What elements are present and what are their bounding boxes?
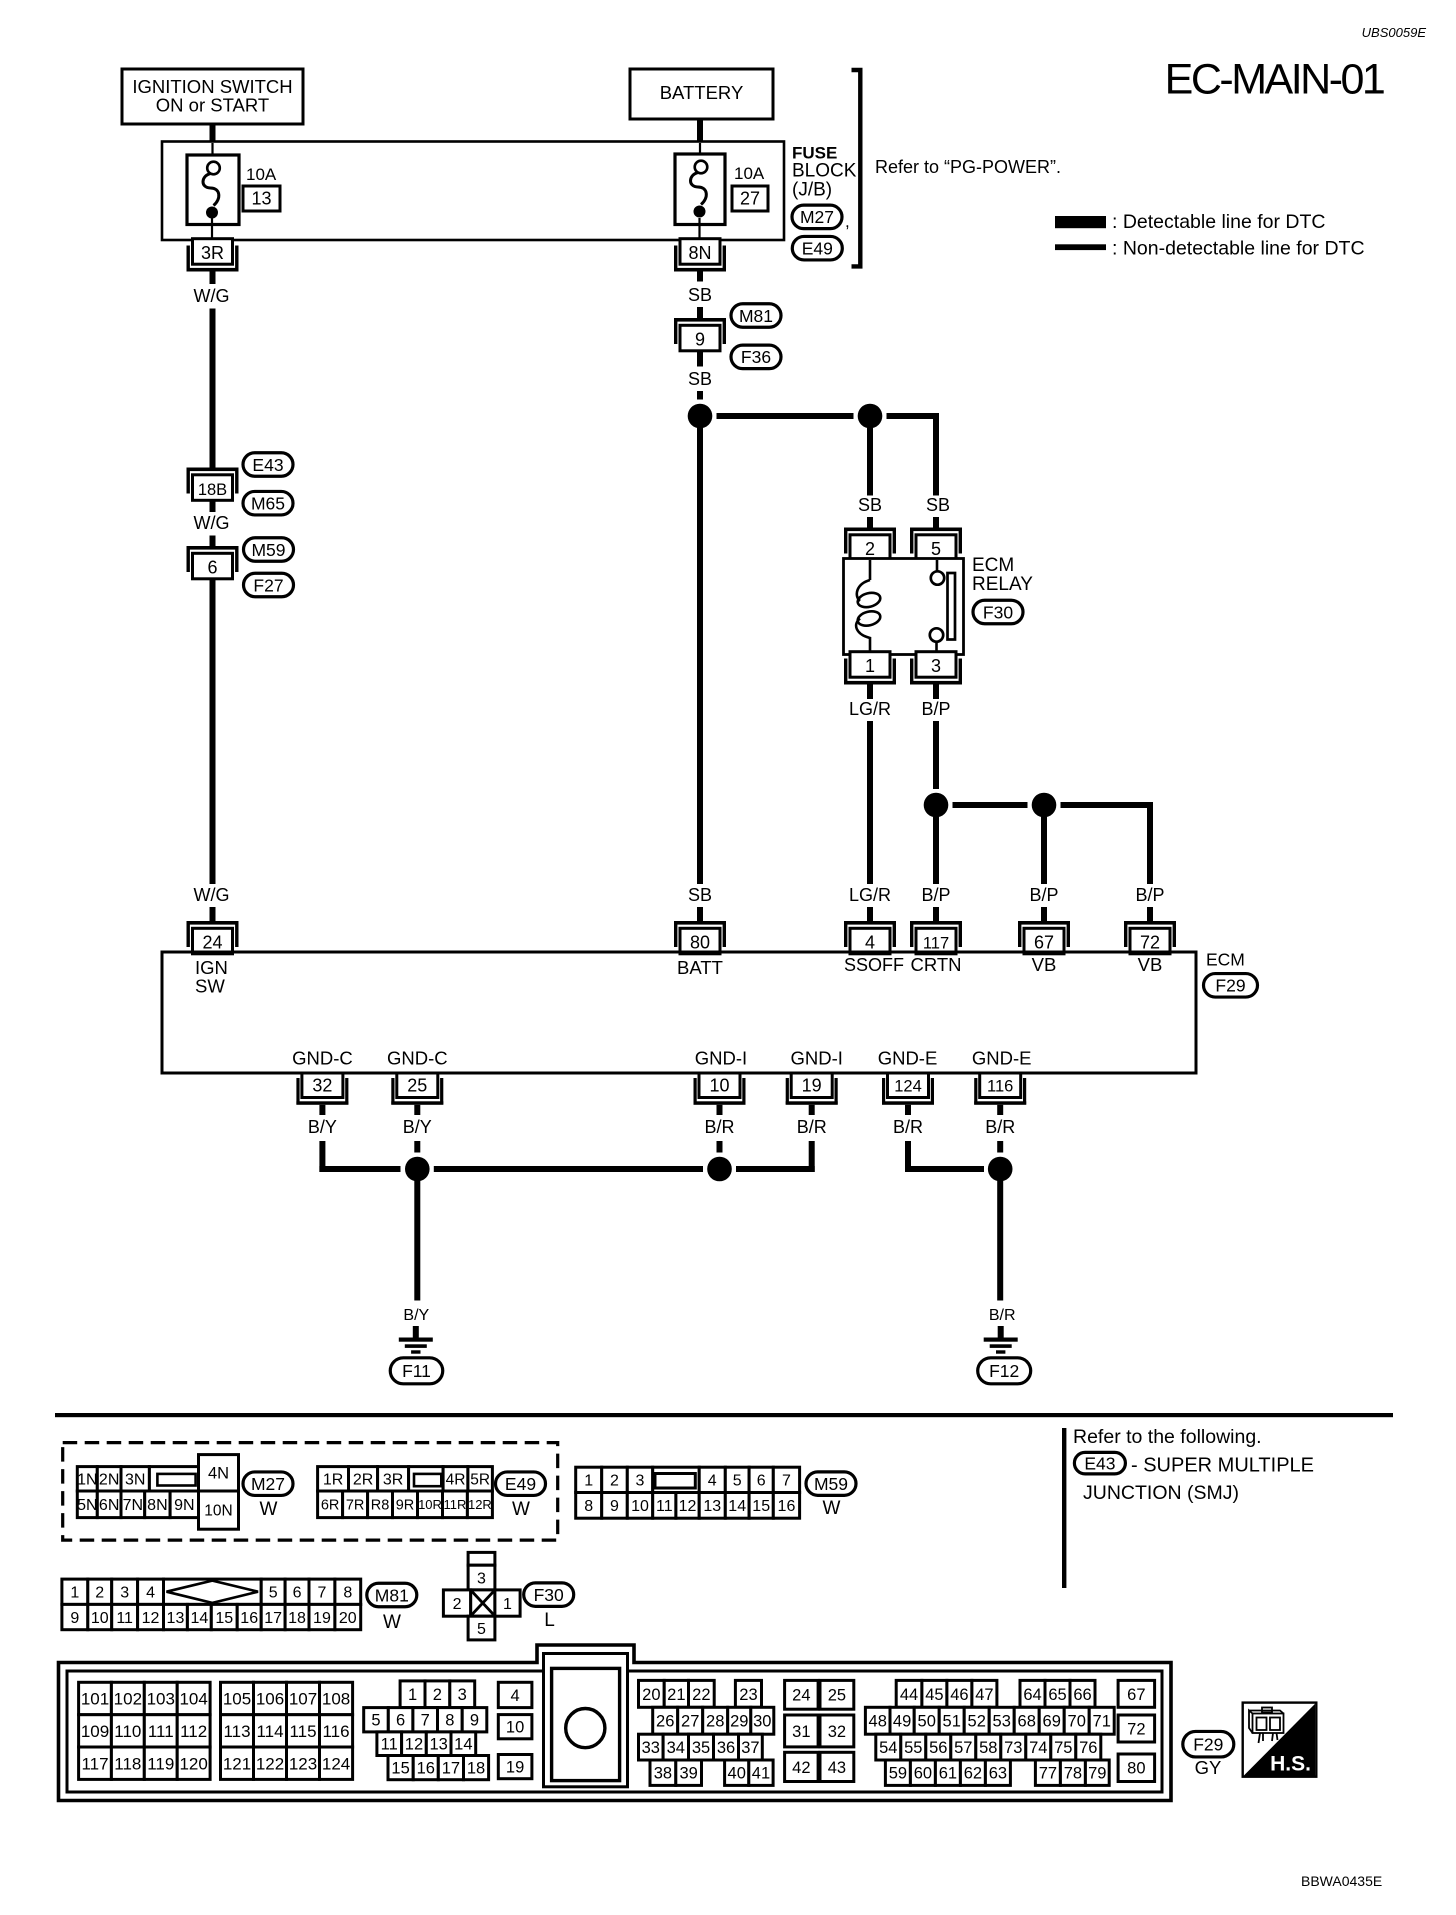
svg-text:78: 78 xyxy=(1064,1765,1082,1783)
svg-text:72: 72 xyxy=(1140,932,1160,952)
svg-text:72: 72 xyxy=(1127,1720,1145,1738)
svg-text:8N: 8N xyxy=(688,243,711,263)
svg-text:BATTERY: BATTERY xyxy=(660,82,744,103)
svg-text:6: 6 xyxy=(396,1712,405,1730)
svg-text:52: 52 xyxy=(968,1713,986,1731)
svg-text:51: 51 xyxy=(943,1713,961,1731)
svg-text:B/R: B/R xyxy=(893,1117,923,1137)
svg-text:114: 114 xyxy=(256,1722,283,1741)
svg-text:Refer to “PG-POWER”.: Refer to “PG-POWER”. xyxy=(875,157,1061,177)
svg-text:3R: 3R xyxy=(201,243,224,263)
svg-text:GND-I: GND-I xyxy=(695,1048,747,1069)
svg-text:1N: 1N xyxy=(77,1472,97,1489)
svg-text:71: 71 xyxy=(1093,1713,1111,1731)
block BATTERY xyxy=(630,69,773,119)
svg-text:3: 3 xyxy=(477,1570,486,1587)
svg-text:23: 23 xyxy=(739,1686,757,1704)
connector ref M81 oval xyxy=(731,304,781,328)
svg-text:46: 46 xyxy=(950,1686,968,1704)
svg-text:: Detectable line for DTC: : Detectable line for DTC xyxy=(1112,211,1326,233)
svg-text:50: 50 xyxy=(918,1713,936,1731)
svg-text:67: 67 xyxy=(1127,1686,1145,1704)
svg-text:105: 105 xyxy=(223,1690,251,1709)
svg-text:76: 76 xyxy=(1079,1739,1097,1757)
svg-text:4: 4 xyxy=(708,1473,717,1490)
ground symbol F12 xyxy=(984,1326,1018,1354)
ECM connector pin 4 xyxy=(498,1682,532,1707)
svg-text:4R: 4R xyxy=(446,1471,466,1488)
svg-text:F12: F12 xyxy=(989,1361,1019,1381)
svg-text:6: 6 xyxy=(293,1585,302,1602)
svg-text:ECM: ECM xyxy=(1206,950,1245,970)
svg-text:SB: SB xyxy=(688,285,712,305)
svg-text:LG/R: LG/R xyxy=(849,885,891,905)
svg-text:25: 25 xyxy=(828,1687,846,1705)
svg-text:101: 101 xyxy=(81,1690,109,1709)
ECM connector grid 105-124 xyxy=(221,1682,353,1779)
svg-text:8: 8 xyxy=(343,1585,352,1602)
svg-text:75: 75 xyxy=(1054,1739,1072,1757)
wire SB to relay terminal 2 xyxy=(867,428,873,496)
ECM connector outer border xyxy=(59,1645,1172,1801)
svg-text:10A: 10A xyxy=(734,164,765,183)
wire battery to fuse block xyxy=(697,119,703,142)
ECM terminal 80 xyxy=(674,921,726,954)
svg-text:102: 102 xyxy=(114,1690,142,1709)
svg-text:118: 118 xyxy=(114,1754,141,1773)
wire 8N down xyxy=(697,272,703,282)
svg-text:GY: GY xyxy=(1195,1757,1222,1778)
svg-text:JUNCTION (SMJ): JUNCTION (SMJ) xyxy=(1083,1482,1239,1504)
svg-text:M81: M81 xyxy=(739,306,773,326)
wire LG/R long run xyxy=(867,721,873,884)
svg-text:F30: F30 xyxy=(534,1585,564,1605)
svg-text:36: 36 xyxy=(717,1739,735,1757)
svg-text:UBS0059E: UBS0059E xyxy=(1362,25,1427,40)
svg-text:W/G: W/G xyxy=(194,286,230,306)
svg-text:68: 68 xyxy=(1018,1713,1036,1731)
ECM connector center block xyxy=(544,1654,628,1787)
svg-text:55: 55 xyxy=(904,1739,922,1757)
svg-text:15: 15 xyxy=(391,1760,409,1778)
svg-text:GND-C: GND-C xyxy=(387,1048,448,1069)
svg-text:4: 4 xyxy=(511,1687,520,1705)
svg-text:121: 121 xyxy=(223,1754,251,1773)
svg-text:B/R: B/R xyxy=(985,1117,1015,1137)
svg-text:1: 1 xyxy=(70,1585,79,1602)
fuse block label FUSE BLOCK (J/B) xyxy=(792,144,857,201)
svg-text:1R: 1R xyxy=(323,1472,343,1489)
svg-text:,: , xyxy=(845,212,850,231)
svg-text:F27: F27 xyxy=(253,575,283,595)
svg-text:11: 11 xyxy=(381,1736,398,1754)
ECM terminal 10 xyxy=(694,1073,746,1105)
svg-text:W: W xyxy=(383,1612,401,1633)
bracket right of fuse block xyxy=(852,70,861,266)
svg-text:1: 1 xyxy=(408,1686,417,1704)
svg-text:12R: 12R xyxy=(468,1497,492,1512)
wire 18B down xyxy=(210,500,216,512)
junction dot ground bus B/Y xyxy=(405,1157,430,1182)
svg-text:14: 14 xyxy=(190,1610,208,1627)
svg-text:62: 62 xyxy=(964,1765,982,1783)
svg-text:W: W xyxy=(260,1499,278,1520)
svg-text:1: 1 xyxy=(584,1473,593,1490)
svg-text:VB: VB xyxy=(1032,954,1057,975)
wire 9 down xyxy=(697,351,703,367)
svg-text:18: 18 xyxy=(288,1610,306,1627)
svg-text:39: 39 xyxy=(679,1765,697,1783)
ECM connector pins 44-47 64-66 xyxy=(896,1680,1095,1707)
svg-text:2: 2 xyxy=(453,1596,462,1613)
svg-text:21: 21 xyxy=(667,1686,685,1704)
svg-text:12: 12 xyxy=(142,1610,160,1627)
svg-text:7: 7 xyxy=(782,1473,791,1490)
relay terminal 1 xyxy=(844,652,896,685)
svg-text:109: 109 xyxy=(81,1722,109,1741)
svg-text:106: 106 xyxy=(256,1690,284,1709)
connector ref E43 oval note xyxy=(1074,1452,1125,1474)
svg-text:B/P: B/P xyxy=(1135,885,1164,905)
junction dot SB bus left xyxy=(688,404,713,429)
legend non-detectable line bar xyxy=(1055,244,1106,250)
svg-text:34: 34 xyxy=(667,1739,685,1757)
wire 19 down xyxy=(809,1105,815,1115)
svg-text:7: 7 xyxy=(317,1585,326,1602)
terminal 18B xyxy=(187,468,239,501)
ECM connector inner border xyxy=(67,1654,1162,1793)
svg-text:64: 64 xyxy=(1023,1686,1041,1704)
wire 124 down xyxy=(905,1105,911,1115)
svg-text:17: 17 xyxy=(264,1610,282,1627)
wire into fuse 27 xyxy=(699,143,701,162)
svg-text:BBWA0435E: BBWA0435E xyxy=(1301,1873,1382,1889)
wire SB to terminal 9 xyxy=(697,307,703,318)
svg-text:16: 16 xyxy=(417,1760,435,1778)
svg-text:61: 61 xyxy=(939,1765,957,1783)
svg-text:F29: F29 xyxy=(1215,976,1245,996)
svg-text:122: 122 xyxy=(256,1754,284,1773)
junction dot ground bus B/R xyxy=(707,1157,732,1182)
svg-text:2N: 2N xyxy=(99,1472,119,1489)
svg-text:5N: 5N xyxy=(77,1497,97,1514)
svg-text:E43: E43 xyxy=(252,455,283,475)
svg-text:F11: F11 xyxy=(402,1361,431,1381)
svg-text:43: 43 xyxy=(828,1759,846,1777)
ECM connector pins 20-23 xyxy=(639,1680,762,1707)
svg-text:7: 7 xyxy=(421,1712,430,1730)
svg-text:GND-E: GND-E xyxy=(878,1048,938,1069)
svg-text:59: 59 xyxy=(889,1765,907,1783)
svg-text:15: 15 xyxy=(752,1498,770,1515)
svg-text:1: 1 xyxy=(503,1596,512,1613)
svg-text:E43: E43 xyxy=(1084,1453,1115,1473)
connector view F30 relay socket xyxy=(443,1552,520,1639)
ground bus wire B/Y-B/R xyxy=(434,1166,703,1172)
svg-text:M27: M27 xyxy=(251,1474,285,1494)
ECM terminal 32 xyxy=(296,1073,348,1105)
svg-text:104: 104 xyxy=(179,1690,207,1709)
svg-text:2: 2 xyxy=(95,1585,104,1602)
dashed box SMJ connectors xyxy=(63,1443,558,1541)
fuse block J/B outline xyxy=(162,142,784,241)
connector ref E49 oval xyxy=(792,236,842,260)
svg-text:ON or START: ON or START xyxy=(156,95,269,116)
svg-text:80: 80 xyxy=(690,932,710,952)
connector ref M27 oval xyxy=(792,205,842,229)
svg-text:B/R: B/R xyxy=(797,1117,827,1137)
ECM connector pins 59-63 77-79 xyxy=(885,1760,1109,1785)
svg-text:7R: 7R xyxy=(346,1498,365,1514)
svg-text:19: 19 xyxy=(506,1759,524,1777)
svg-text:Refer to the following.: Refer to the following. xyxy=(1073,1426,1262,1448)
svg-text:F29: F29 xyxy=(1193,1735,1223,1755)
svg-text:GND-I: GND-I xyxy=(790,1048,842,1069)
connector ref E49 oval bottom xyxy=(496,1472,546,1496)
connector view M27 grid xyxy=(77,1455,238,1530)
svg-text:31: 31 xyxy=(792,1723,810,1741)
ground symbol F11 xyxy=(399,1326,433,1354)
svg-text:119: 119 xyxy=(147,1754,174,1773)
svg-text:W: W xyxy=(512,1499,530,1520)
svg-text:107: 107 xyxy=(289,1690,317,1709)
svg-text:4: 4 xyxy=(146,1585,155,1602)
ECM connector pins 11-14 xyxy=(377,1732,476,1756)
ECM connector pin 19 xyxy=(498,1755,532,1779)
svg-text:E49: E49 xyxy=(802,239,833,259)
wire W/G to ECM 24 xyxy=(210,907,216,921)
ECM connector pin 10 xyxy=(498,1715,532,1739)
ECM terminal 124 xyxy=(882,1073,934,1105)
connector ref F29 oval xyxy=(1204,974,1258,998)
wire B/R to ground F12 xyxy=(997,1181,1003,1301)
terminal 3R xyxy=(187,239,239,272)
ground ref F11 oval xyxy=(390,1358,443,1384)
svg-text:EC-MAIN-01: EC-MAIN-01 xyxy=(1165,56,1384,104)
connector view E49 grid xyxy=(318,1467,493,1518)
wire 32 down xyxy=(319,1105,325,1115)
block IGNITION SWITCH xyxy=(122,69,303,124)
svg-text:11R: 11R xyxy=(444,1497,467,1512)
svg-text:13: 13 xyxy=(429,1736,447,1754)
svg-text:9R: 9R xyxy=(396,1498,415,1514)
svg-text:24: 24 xyxy=(792,1687,810,1705)
ECM connector pins 54-58 73-76 xyxy=(876,1734,1101,1760)
svg-text:13: 13 xyxy=(703,1498,721,1515)
svg-text:54: 54 xyxy=(879,1739,897,1757)
svg-text:42: 42 xyxy=(792,1759,810,1777)
ECM terminal 25 xyxy=(391,1073,443,1105)
ECM connector pins 24-25 31-32 42-43 xyxy=(785,1680,854,1781)
ECM terminal 117 xyxy=(910,921,962,954)
svg-text:11: 11 xyxy=(656,1498,673,1515)
svg-text:R8: R8 xyxy=(371,1498,390,1514)
svg-text:5: 5 xyxy=(371,1712,380,1730)
connector ref E43 oval xyxy=(243,453,293,477)
svg-text:12: 12 xyxy=(679,1498,697,1515)
relay coil xyxy=(856,560,882,653)
svg-text:B/Y: B/Y xyxy=(308,1117,337,1137)
svg-text:20: 20 xyxy=(339,1610,357,1627)
svg-text:6N: 6N xyxy=(99,1497,119,1514)
svg-text:65: 65 xyxy=(1048,1686,1066,1704)
svg-text:80: 80 xyxy=(1127,1760,1145,1778)
svg-text:45: 45 xyxy=(925,1686,943,1704)
svg-text:24: 24 xyxy=(202,932,222,952)
svg-text:10: 10 xyxy=(631,1498,649,1515)
svg-text:13: 13 xyxy=(251,189,271,209)
svg-text:25: 25 xyxy=(407,1076,427,1096)
wire 19 corner to bus xyxy=(809,1141,815,1172)
svg-text:35: 35 xyxy=(692,1739,710,1757)
svg-text:ECM: ECM xyxy=(972,555,1014,576)
relay contact xyxy=(930,560,955,655)
wire 3R down xyxy=(210,272,216,285)
SB bus corner down to relay 5 xyxy=(933,413,939,496)
svg-text:B/P: B/P xyxy=(921,699,950,719)
svg-text:63: 63 xyxy=(989,1765,1007,1783)
svg-text:9: 9 xyxy=(695,329,705,349)
svg-text:E49: E49 xyxy=(505,1474,536,1494)
wire B/P junction to CRTN xyxy=(933,817,939,884)
svg-text:5: 5 xyxy=(931,539,941,559)
ground bus wire to 19 xyxy=(736,1166,815,1172)
wire B/Y to ground F11 xyxy=(414,1181,420,1301)
ECM connector pin 67 xyxy=(1118,1680,1155,1707)
svg-text:116: 116 xyxy=(987,1078,1013,1096)
B/P bus wire segment xyxy=(953,802,1028,808)
svg-text:74: 74 xyxy=(1029,1739,1047,1757)
svg-text:27: 27 xyxy=(740,189,760,209)
ECM terminal 67 xyxy=(1018,921,1070,954)
svg-text:6: 6 xyxy=(757,1473,766,1490)
ECM connector pins 5-9 xyxy=(364,1708,487,1732)
connector ref F36 oval xyxy=(731,345,781,369)
connector ref F30 oval bottom xyxy=(524,1583,574,1607)
connector ref F30 oval xyxy=(973,600,1023,624)
svg-text:120: 120 xyxy=(179,1754,207,1773)
svg-text:16: 16 xyxy=(240,1610,258,1627)
wire 32 corner to bus xyxy=(319,1141,325,1172)
svg-text:5: 5 xyxy=(269,1585,278,1602)
relay terminal 5 xyxy=(910,528,962,561)
svg-text:3N: 3N xyxy=(125,1472,145,1489)
legend detectable line bar xyxy=(1055,216,1106,228)
svg-text:10A: 10A xyxy=(246,165,277,184)
junction dot SB bus right xyxy=(858,404,883,429)
svg-text:B/R: B/R xyxy=(704,1117,734,1137)
svg-text:8: 8 xyxy=(584,1498,593,1515)
svg-text:22: 22 xyxy=(692,1686,710,1704)
svg-text:10: 10 xyxy=(709,1076,729,1096)
svg-text:28: 28 xyxy=(706,1713,724,1731)
svg-text:40: 40 xyxy=(728,1765,746,1783)
svg-text:32: 32 xyxy=(828,1723,846,1741)
fuse 13 10A xyxy=(187,155,239,225)
svg-text:124: 124 xyxy=(322,1754,350,1773)
svg-text:SB: SB xyxy=(926,495,950,515)
svg-text:M59: M59 xyxy=(251,540,285,560)
connector ref M81 oval bottom xyxy=(367,1583,417,1607)
ECM connector pin 80 xyxy=(1118,1754,1155,1782)
wire 25 down xyxy=(414,1105,420,1115)
svg-text:9N: 9N xyxy=(174,1497,194,1514)
svg-text:19: 19 xyxy=(802,1076,822,1096)
svg-text:15: 15 xyxy=(215,1610,233,1627)
ECM relay box xyxy=(844,559,964,655)
wire fuse 27 to terminal 8N xyxy=(698,218,700,240)
svg-text:RELAY: RELAY xyxy=(972,574,1033,595)
svg-text:30: 30 xyxy=(753,1713,771,1731)
svg-text:37: 37 xyxy=(741,1739,759,1757)
fuse 27 10A xyxy=(675,154,725,225)
ECM connector pin 72 xyxy=(1118,1715,1155,1742)
svg-text:W/G: W/G xyxy=(194,513,230,533)
svg-text:48: 48 xyxy=(869,1713,887,1731)
svg-text:F30: F30 xyxy=(983,602,1013,622)
wire 124 corner to bus xyxy=(905,1141,911,1172)
svg-text:SB: SB xyxy=(858,495,882,515)
svg-text:GND-E: GND-E xyxy=(972,1048,1032,1069)
svg-text:117: 117 xyxy=(81,1754,108,1773)
svg-text:- SUPER MULTIPLE: - SUPER MULTIPLE xyxy=(1131,1455,1314,1477)
wire W/G to 18B xyxy=(210,309,216,468)
svg-text:14: 14 xyxy=(454,1736,472,1754)
terminal 9 xyxy=(674,318,726,351)
ECM terminal 72 xyxy=(1124,921,1176,954)
relay terminal 2 xyxy=(844,528,896,561)
wire SB to junction xyxy=(697,391,703,400)
svg-text:LG/R: LG/R xyxy=(849,699,891,719)
svg-text:33: 33 xyxy=(642,1739,660,1757)
svg-text:32: 32 xyxy=(312,1076,332,1096)
ECM terminal 19 xyxy=(786,1073,838,1105)
junction dot B/P bus left xyxy=(924,793,949,818)
svg-text:4N: 4N xyxy=(208,1465,229,1483)
svg-text:L: L xyxy=(544,1610,555,1631)
svg-text:41: 41 xyxy=(752,1765,770,1783)
wire junction to ECM 80 xyxy=(697,424,703,884)
svg-text:3R: 3R xyxy=(383,1472,403,1489)
svg-text:2: 2 xyxy=(610,1473,619,1490)
svg-text:B/P: B/P xyxy=(921,885,950,905)
svg-text:18: 18 xyxy=(467,1760,485,1778)
svg-text:GND-C: GND-C xyxy=(292,1048,353,1069)
B/P bus wire to corner xyxy=(1061,802,1154,808)
junction dot ground bus B/R right xyxy=(988,1157,1013,1182)
svg-text:108: 108 xyxy=(322,1690,350,1709)
svg-text:: Non-detectable line for DTC: : Non-detectable line for DTC xyxy=(1112,238,1365,260)
ECM box xyxy=(162,952,1196,1073)
svg-text:57: 57 xyxy=(954,1739,972,1757)
svg-text:49: 49 xyxy=(893,1713,911,1731)
ECM terminal 4 xyxy=(844,921,896,954)
separator line xyxy=(55,1413,1393,1417)
svg-text:SB: SB xyxy=(688,369,712,389)
svg-text:69: 69 xyxy=(1043,1713,1061,1731)
connector view M81 grid xyxy=(62,1579,361,1630)
svg-text:6R: 6R xyxy=(321,1498,340,1514)
svg-text:2R: 2R xyxy=(353,1472,373,1489)
svg-text:M81: M81 xyxy=(375,1585,409,1605)
svg-text:29: 29 xyxy=(730,1713,748,1731)
svg-text:123: 123 xyxy=(289,1754,317,1773)
junction dot B/P bus right xyxy=(1032,793,1057,818)
svg-text:16: 16 xyxy=(778,1498,796,1515)
wire relay 1 down xyxy=(867,685,873,700)
svg-text:SW: SW xyxy=(195,976,225,997)
svg-text:1: 1 xyxy=(865,656,875,676)
